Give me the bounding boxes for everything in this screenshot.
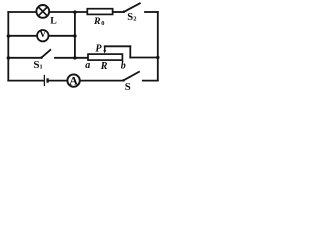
- wire middle vertical node: [74, 12, 76, 58]
- svg-text:S: S: [127, 12, 133, 23]
- voltmeter V: [37, 30, 48, 42]
- switch S1 contact pivot: [41, 56, 43, 58]
- switch S2 blade: [124, 3, 140, 12]
- battery cell: [44, 75, 47, 86]
- switch S blade: [124, 72, 139, 81]
- wire top left to lamp: [8, 11, 36, 13]
- rheostat slider arrow P: [103, 46, 106, 53]
- junction node dots: [7, 10, 160, 81]
- rheostat R (slide) box: [88, 54, 122, 60]
- switch S2 contact pivot: [123, 10, 125, 12]
- wire lamp to R0: [50, 11, 88, 13]
- svg-text:0: 0: [101, 20, 104, 27]
- node voltmeter-right junction: [73, 34, 77, 38]
- wire middle branch left to S1: [8, 57, 41, 59]
- svg-text:1: 1: [40, 63, 43, 70]
- switch S1 blade: [42, 50, 51, 58]
- svg-text:S: S: [125, 81, 131, 93]
- ammeter A: [67, 74, 79, 88]
- switch S contact pivot: [123, 79, 125, 81]
- node rheostat-right junction: [156, 56, 159, 59]
- resistor R0 (box): [87, 9, 112, 15]
- wire left vertical: [7, 12, 9, 81]
- wire S right contact to bottom-right corner: [143, 80, 158, 82]
- lamp L: [36, 5, 49, 18]
- node left-voltmeter junction: [7, 34, 11, 38]
- svg-text:2: 2: [133, 16, 136, 23]
- wire right vertical: [157, 12, 159, 81]
- wire S2 right contact to top-right corner: [145, 11, 158, 13]
- wire bottom left to battery: [8, 80, 43, 82]
- wire slider P to step corner: [105, 45, 131, 47]
- wire S1 to rheostat terminal a: [55, 57, 88, 59]
- node top junction: [73, 10, 77, 14]
- node middle-right junction: [73, 56, 77, 60]
- svg-text:a: a: [85, 60, 90, 71]
- svg-text:b: b: [121, 61, 126, 72]
- wire R0 to S2 left contact: [112, 11, 123, 13]
- wire battery to ammeter: [49, 80, 67, 82]
- wire ammeter to switch S: [80, 80, 123, 82]
- wire step down: [129, 46, 131, 57]
- svg-text:P: P: [95, 44, 102, 55]
- svg-text:V: V: [39, 30, 46, 40]
- svg-text:A: A: [69, 74, 78, 88]
- svg-text:R: R: [100, 61, 108, 72]
- node left-middle junction: [7, 56, 11, 60]
- svg-text:R: R: [93, 16, 101, 27]
- wire step to right vertical: [130, 57, 158, 59]
- svg-text:L: L: [50, 16, 57, 27]
- wire voltmeter branch right: [49, 35, 75, 37]
- wire voltmeter branch left: [8, 35, 36, 37]
